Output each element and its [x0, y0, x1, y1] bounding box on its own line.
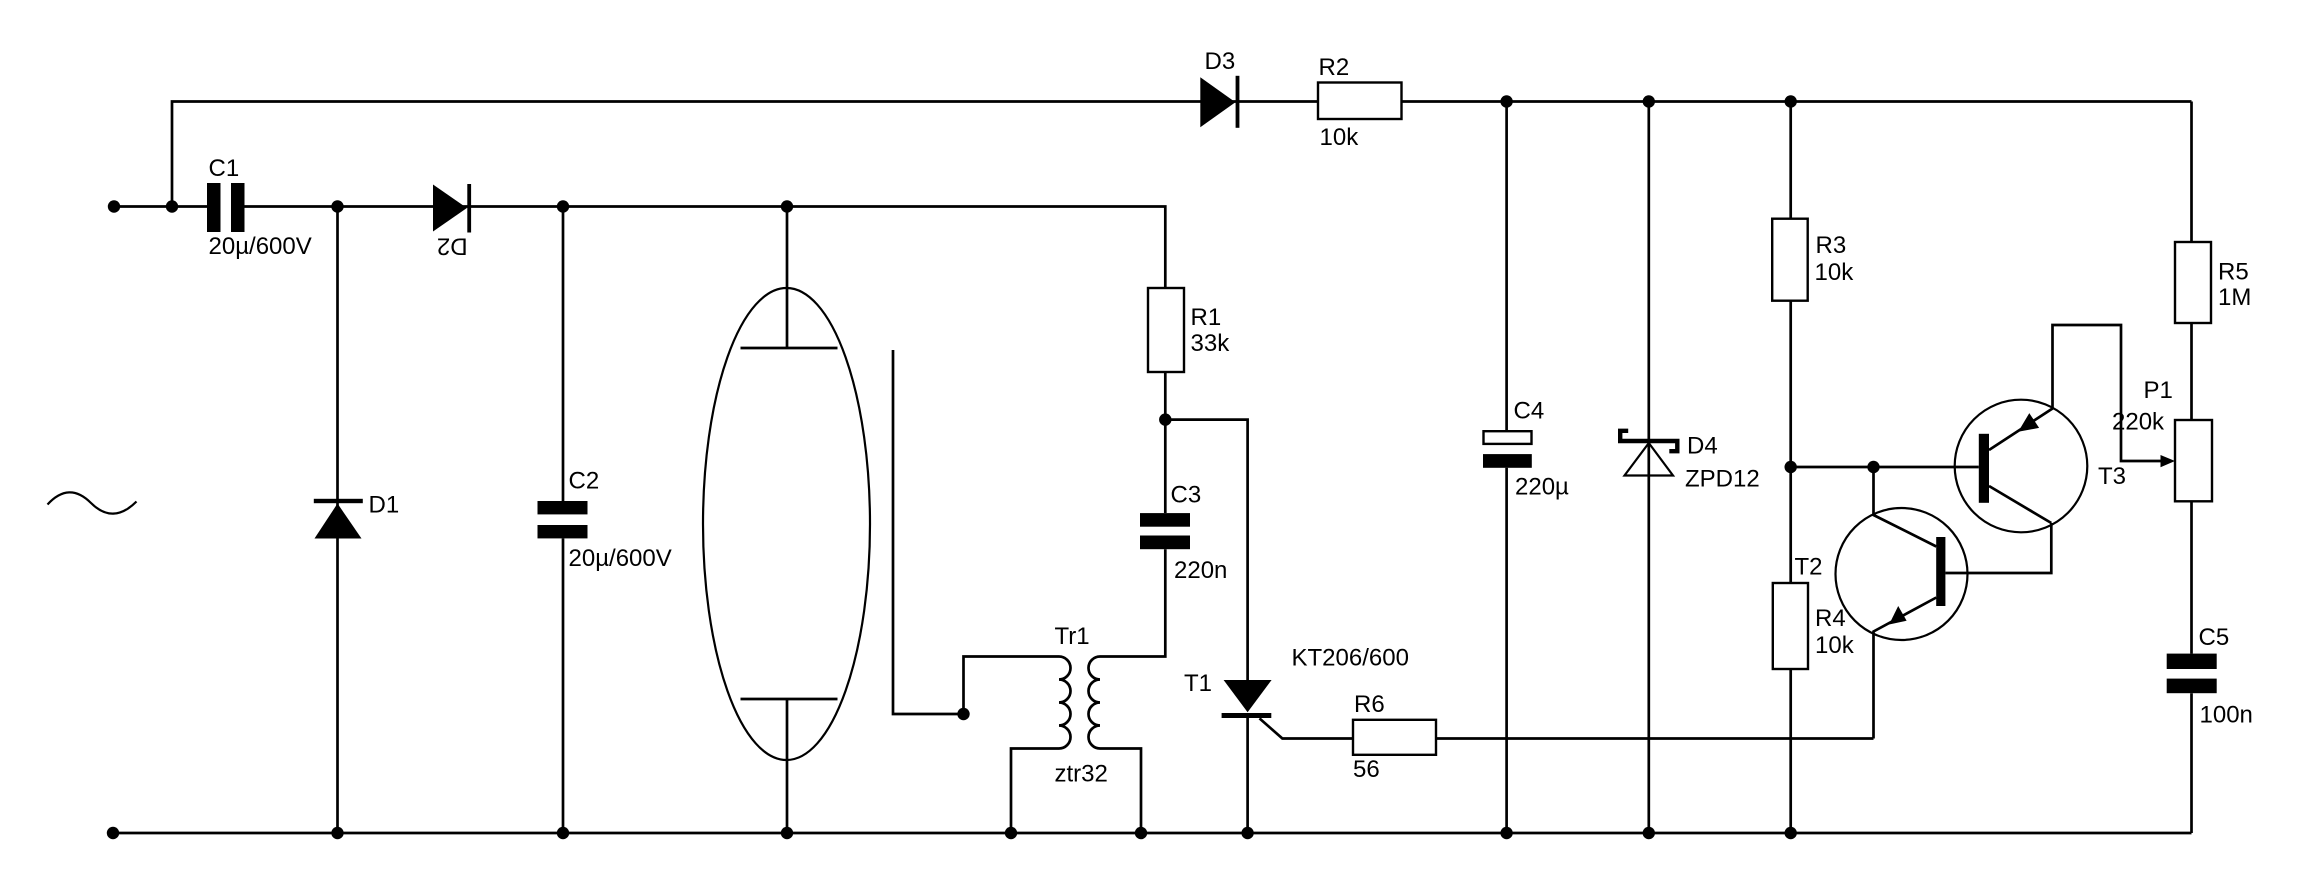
svg-text:R5: R5 — [2218, 259, 2249, 286]
svg-text:20µ/600V: 20µ/600V — [209, 233, 312, 260]
svg-text:D4: D4 — [1687, 433, 1718, 460]
lamp bottom electrode — [741, 698, 838, 701]
svg-text:D3: D3 — [1205, 48, 1236, 75]
flash lamp envelope — [703, 288, 870, 760]
resistor R2 — [1318, 83, 1402, 120]
svg-text:D1: D1 — [369, 492, 400, 519]
junction R1 C3 node — [1159, 413, 1171, 425]
svg-text:C2: C2 — [569, 468, 600, 495]
resistor R4 — [1773, 583, 1808, 669]
wire T3 emitter — [1989, 325, 2163, 461]
capacitor C2 — [538, 501, 588, 538]
wire C4 branch lower — [1505, 468, 1508, 833]
junction top-left corner node — [166, 200, 178, 212]
wire R3 R4 branch — [1789, 102, 1792, 834]
resistor R3 — [1772, 219, 1808, 301]
svg-text:220n: 220n — [1174, 557, 1227, 584]
wire primary bottom — [1011, 749, 1059, 834]
thyristor T1 — [1222, 680, 1272, 718]
wire D4 branch — [1647, 102, 1650, 834]
junction T2 collector node — [1867, 461, 1879, 473]
potentiometer P1 — [2175, 420, 2212, 501]
wire C2 branch upper — [562, 207, 565, 502]
wire D1 branch — [336, 207, 339, 834]
wire thyristor cathode down — [1246, 716, 1249, 833]
transformer Tr1 primary winding — [1059, 657, 1071, 749]
AC source symbol — [48, 492, 137, 513]
wire right rail lower — [2190, 693, 2193, 833]
wire top rail — [172, 102, 2192, 207]
wire trigger electrode — [893, 350, 964, 714]
junction T1 cathode bottom — [1241, 827, 1253, 839]
wire right rail upper — [2190, 102, 2193, 654]
svg-text:220µ: 220µ — [1515, 474, 1569, 501]
wire T1 gate — [1260, 718, 1354, 738]
wire T2 base to T3 collector — [1945, 523, 2051, 573]
junction C2 bottom — [557, 827, 569, 839]
svg-text:C1: C1 — [209, 155, 240, 182]
capacitor C5 — [2167, 654, 2217, 694]
wire T2 emitter — [1874, 598, 1937, 739]
svg-text:R3: R3 — [1816, 232, 1847, 259]
capacitor C3 — [1140, 513, 1190, 549]
wire node to thyristor anode — [1165, 420, 1247, 680]
P1 wiper arrow — [2161, 455, 2176, 467]
resistor R5 — [2175, 242, 2211, 323]
svg-text:R1: R1 — [1191, 304, 1222, 331]
svg-text:C3: C3 — [1171, 482, 1202, 509]
svg-text:T3: T3 — [2098, 463, 2126, 490]
junction primary bottom — [1005, 827, 1017, 839]
wire bottom rail — [113, 832, 2192, 835]
svg-text:Tr1: Tr1 — [1055, 623, 1090, 650]
junction lamp bottom — [781, 827, 793, 839]
wire lamp top stem — [786, 207, 789, 349]
junction C4 top — [1500, 95, 1512, 107]
svg-text:20µ/600V: 20µ/600V — [569, 545, 672, 572]
svg-text:ztr32: ztr32 — [1055, 761, 1108, 788]
junction R4 bottom — [1785, 827, 1797, 839]
diode D3 — [1200, 76, 1239, 128]
svg-text:KT206/600: KT206/600 — [1292, 645, 1409, 672]
svg-text:56: 56 — [1353, 756, 1380, 783]
lamp top electrode — [741, 347, 838, 350]
svg-text:10k: 10k — [1815, 259, 1855, 286]
junction C2 top — [557, 200, 569, 212]
wire T2 collector riser — [1874, 467, 1937, 547]
svg-text:100n: 100n — [2200, 702, 2253, 729]
wire base node to T3 — [1791, 466, 1979, 469]
svg-text:T2: T2 — [1795, 554, 1823, 581]
junction input bottom — [107, 827, 119, 839]
svg-text:R6: R6 — [1354, 691, 1385, 718]
wire secondary bottom — [1100, 749, 1141, 834]
capacitor C1 — [207, 183, 245, 232]
wire lamp bottom stem — [786, 699, 789, 833]
diode D2 — [433, 184, 471, 233]
junction input top — [108, 200, 120, 212]
svg-text:33k: 33k — [1191, 330, 1231, 357]
resistor R1 — [1148, 288, 1184, 372]
wire R1 to C3 node — [1164, 372, 1167, 513]
svg-text:R4: R4 — [1815, 605, 1846, 632]
T3 emitter arrow — [2018, 413, 2039, 432]
svg-text:10k: 10k — [1320, 124, 1360, 151]
capacitor C4 — [1483, 431, 1532, 468]
junction D1 top — [331, 200, 343, 212]
svg-text:P1: P1 — [2144, 377, 2173, 404]
svg-text:C4: C4 — [1514, 398, 1545, 425]
wire C2 branch lower — [562, 539, 565, 834]
junction D4 top — [1643, 95, 1655, 107]
svg-text:1M: 1M — [2218, 284, 2251, 311]
junction lamp top — [781, 200, 793, 212]
wire trigger to primary — [964, 657, 1060, 715]
wire AC input to C1 — [114, 205, 207, 208]
wire R6 to T2 emitter — [1436, 737, 1874, 740]
junction R3 top — [1785, 95, 1797, 107]
junction D1 bottom — [331, 827, 343, 839]
transistor T3 — [1955, 400, 2088, 533]
svg-text:C5: C5 — [2199, 624, 2230, 651]
wire C4 branch upper — [1505, 102, 1508, 432]
T2 emitter arrow — [1889, 606, 1907, 625]
svg-text:ZPD12: ZPD12 — [1685, 466, 1760, 493]
transistor T2 — [1836, 508, 1968, 640]
junction D4 bottom — [1643, 827, 1655, 839]
junction secondary bottom — [1135, 827, 1147, 839]
wire main mid rail — [245, 207, 1166, 289]
junction C4 bottom — [1500, 827, 1512, 839]
svg-text:220k: 220k — [2112, 409, 2165, 436]
wire T3 collector — [1989, 486, 2051, 523]
svg-text:R2: R2 — [1319, 54, 1350, 81]
svg-text:T1: T1 — [1184, 670, 1212, 697]
junction trigger node — [957, 708, 969, 720]
transformer Tr1 secondary winding — [1089, 657, 1101, 749]
diode D1 — [314, 499, 363, 539]
junction R3 R4 node — [1785, 461, 1797, 473]
svg-text:10k: 10k — [1815, 632, 1855, 659]
resistor R6 — [1353, 720, 1436, 755]
zener diode D4 — [1618, 431, 1680, 476]
svg-text:D2: D2 — [437, 232, 468, 259]
wire secondary top to C3 — [1100, 549, 1165, 656]
